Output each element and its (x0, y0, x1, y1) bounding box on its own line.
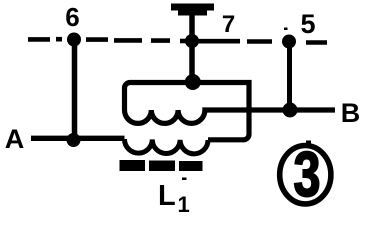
wire: A lead (31, 136, 125, 141)
inductor L1 lower winding (124, 139, 208, 154)
dashed bus line (28, 39, 327, 42)
figure number circle (280, 146, 331, 204)
antenna flat-top bar (terminal 7 top) (171, 4, 214, 16)
junction dot terminal 7 on coil top (185, 74, 201, 90)
junction dot terminal 6 on A lead (67, 133, 81, 147)
ink bump on circle top (306, 141, 311, 145)
wire: terminal 6 vertical (72, 40, 78, 140)
junction dot terminal 7 on bus (185, 34, 199, 48)
svg-text:B: B (341, 98, 361, 128)
svg-text:L: L (158, 180, 176, 212)
coil core dashed bar (120, 160, 203, 171)
svg-text:5: 5 (300, 9, 315, 39)
svg-text:7: 7 (222, 11, 235, 38)
junction dot terminal 6 on bus (67, 33, 81, 47)
inductor L1 upper winding with loop wiring to B (125, 83, 336, 140)
svg-text:3: 3 (294, 139, 321, 210)
junction dot terminal 5 on bus (282, 35, 296, 49)
svg-text:A: A (5, 124, 25, 154)
ink speck below core (182, 178, 187, 181)
wire: terminal 5 vertical (287, 42, 292, 110)
wire: stem of terminal 7 (189, 13, 195, 82)
ink speck above terminal 5 (284, 28, 288, 31)
svg-text:6: 6 (65, 2, 79, 32)
svg-text:1: 1 (178, 192, 190, 216)
junction dot terminal 5 on B line (283, 103, 298, 118)
